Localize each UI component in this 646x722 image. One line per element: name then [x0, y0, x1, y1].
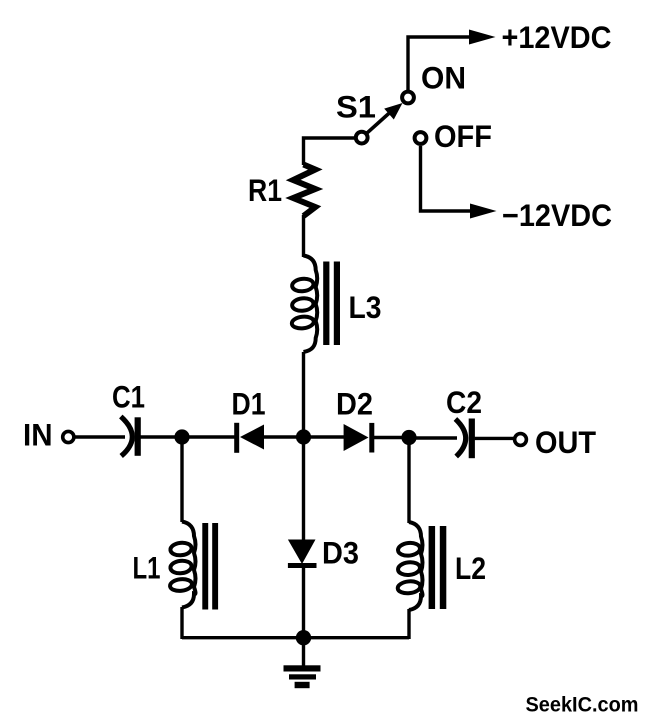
- svg-text:L1: L1: [133, 550, 161, 586]
- inductor L3: [291, 256, 340, 353]
- svg-text:L3: L3: [349, 289, 382, 325]
- wire D3 to ground node: [302, 566, 305, 638]
- wire node A to L1: [180, 437, 183, 522]
- wire D1 to center node: [264, 435, 304, 438]
- wire OFF terminal to -12VDC arrow: [421, 146, 473, 211]
- capacitor C2: [455, 419, 475, 459]
- diode D1: [234, 423, 264, 453]
- node C junction dot: [401, 430, 416, 445]
- diode D2: [344, 423, 375, 453]
- svg-text:C1: C1: [112, 379, 145, 415]
- svg-text:D1: D1: [232, 386, 266, 422]
- wire ON terminal to +12VDC arrow: [408, 37, 471, 91]
- svg-text:−12VDC: −12VDC: [502, 197, 612, 233]
- terminal IN: [63, 431, 74, 442]
- wire IN to C1: [75, 435, 126, 438]
- ground node junction dot: [296, 630, 311, 645]
- arrowhead -12VDC: [470, 204, 497, 219]
- svg-text:ON: ON: [421, 60, 466, 96]
- svg-text:D3: D3: [322, 535, 359, 571]
- wire center node to D3: [302, 437, 305, 541]
- terminal ON: [402, 92, 414, 104]
- ground: [284, 638, 321, 689]
- svg-text:D2: D2: [336, 386, 373, 422]
- svg-text:C2: C2: [446, 384, 482, 420]
- svg-text:S1: S1: [336, 89, 376, 125]
- svg-text:R1: R1: [248, 172, 282, 208]
- svg-text:+12VDC: +12VDC: [502, 19, 612, 55]
- wire C2 to OUT: [475, 437, 515, 440]
- svg-text:L2: L2: [455, 550, 486, 586]
- wire L1 to bottom rail: [180, 607, 183, 639]
- wire node A to D1: [182, 435, 236, 438]
- switch S1 common terminal: [356, 132, 368, 144]
- svg-text:IN: IN: [23, 417, 53, 453]
- switch S1 lever with arrowhead: [367, 103, 403, 133]
- wire D2 to node C: [374, 436, 409, 439]
- wire C1 to node A: [141, 435, 183, 438]
- terminal OUT: [515, 434, 527, 446]
- svg-text:SeekIC.com: SeekIC.com: [526, 693, 639, 717]
- wire L3 to center node: [302, 352, 305, 437]
- node B center junction dot: [296, 429, 311, 444]
- node A junction dot: [174, 429, 189, 444]
- wire L2 to bottom rail: [407, 609, 410, 639]
- wire R1 to L3: [302, 215, 305, 257]
- capacitor C1: [121, 417, 141, 457]
- terminal OFF: [415, 132, 427, 144]
- diode D3: [288, 540, 317, 569]
- svg-text:OUT: OUT: [535, 424, 596, 460]
- arrowhead +12VDC: [469, 30, 496, 45]
- wire node C to L2: [407, 438, 410, 524]
- wire from R1 top to switch common: [304, 138, 355, 165]
- inductor L2: [397, 522, 446, 610]
- wire node C to C2: [409, 436, 457, 439]
- inductor L1: [169, 522, 218, 610]
- resistor R1: [293, 165, 315, 217]
- svg-text:OFF: OFF: [434, 118, 492, 154]
- wire bottom rail: [182, 636, 409, 639]
- wire center node to D2: [304, 435, 346, 438]
